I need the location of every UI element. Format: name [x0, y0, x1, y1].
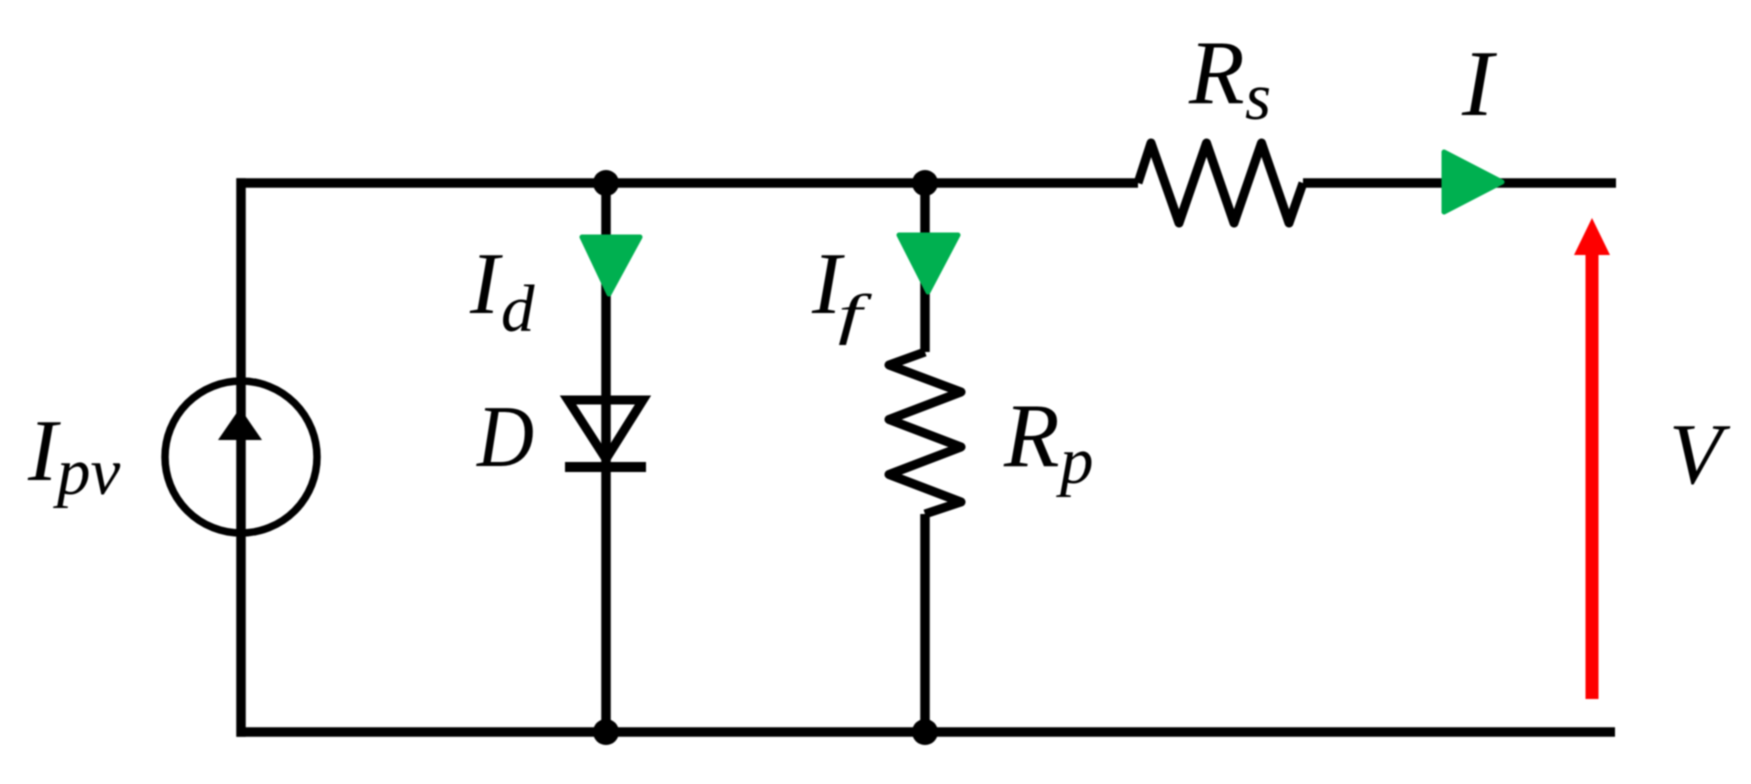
svg-text:I: I: [27, 403, 61, 500]
green arrow I (output current, right-pointing): [1444, 152, 1502, 212]
wire: left vertical (top rail through current source to bottom rail): [236, 178, 246, 736]
svg-text:I: I: [1461, 32, 1497, 136]
node dot: bottom junction at diode branch: [593, 719, 619, 745]
label I: [1461, 32, 1497, 136]
wire: Rp branch lower vertical: [920, 514, 930, 732]
wire: diode branch vertical: [601, 183, 611, 732]
wire: top rail right segment (Rs to output): [1303, 178, 1616, 188]
svg-text:pv: pv: [53, 435, 121, 509]
current source Ipv (circle with up arrow): [165, 381, 317, 533]
label If: [811, 236, 873, 346]
green arrow If (current into Rp): [899, 235, 958, 292]
green arrow Id (current into diode): [582, 237, 640, 294]
svg-text:R: R: [1003, 385, 1060, 486]
svg-text:V: V: [1669, 405, 1731, 502]
svg-text:D: D: [476, 389, 534, 486]
node dot: top junction at diode branch: [593, 170, 619, 196]
resistor Rp (shunt, vertical zigzag): [889, 352, 961, 514]
svg-text:I: I: [469, 236, 503, 333]
svg-text:p: p: [1056, 424, 1094, 498]
resistor Rs (series, horizontal zigzag): [1138, 143, 1303, 223]
voltage arrow V (red, upward): [1574, 218, 1610, 699]
label Ipv: [27, 403, 121, 509]
wire: Rp branch upper vertical: [920, 183, 930, 352]
diode D (hollow triangle + cathode bar): [565, 400, 646, 467]
node dot: top junction at Rp branch: [912, 170, 938, 196]
label Rs: [1188, 22, 1271, 134]
label V: [1669, 405, 1731, 502]
svg-text:s: s: [1245, 60, 1271, 134]
label D: [476, 389, 534, 486]
label Rp: [1003, 385, 1094, 498]
svg-text:R: R: [1188, 22, 1245, 123]
node dot: bottom junction at Rp branch: [912, 719, 938, 745]
wire: top rail left segment (node1 to Rs): [237, 178, 1139, 188]
svg-text:d: d: [501, 272, 535, 346]
label Id: [469, 236, 535, 346]
wire: bottom rail: [237, 727, 1616, 737]
